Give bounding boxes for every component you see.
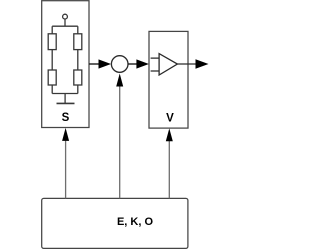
svg-text:S: S bbox=[62, 112, 70, 124]
svg-text:V: V bbox=[166, 113, 174, 125]
svg-text:E, K, O: E, K, O bbox=[117, 216, 154, 228]
